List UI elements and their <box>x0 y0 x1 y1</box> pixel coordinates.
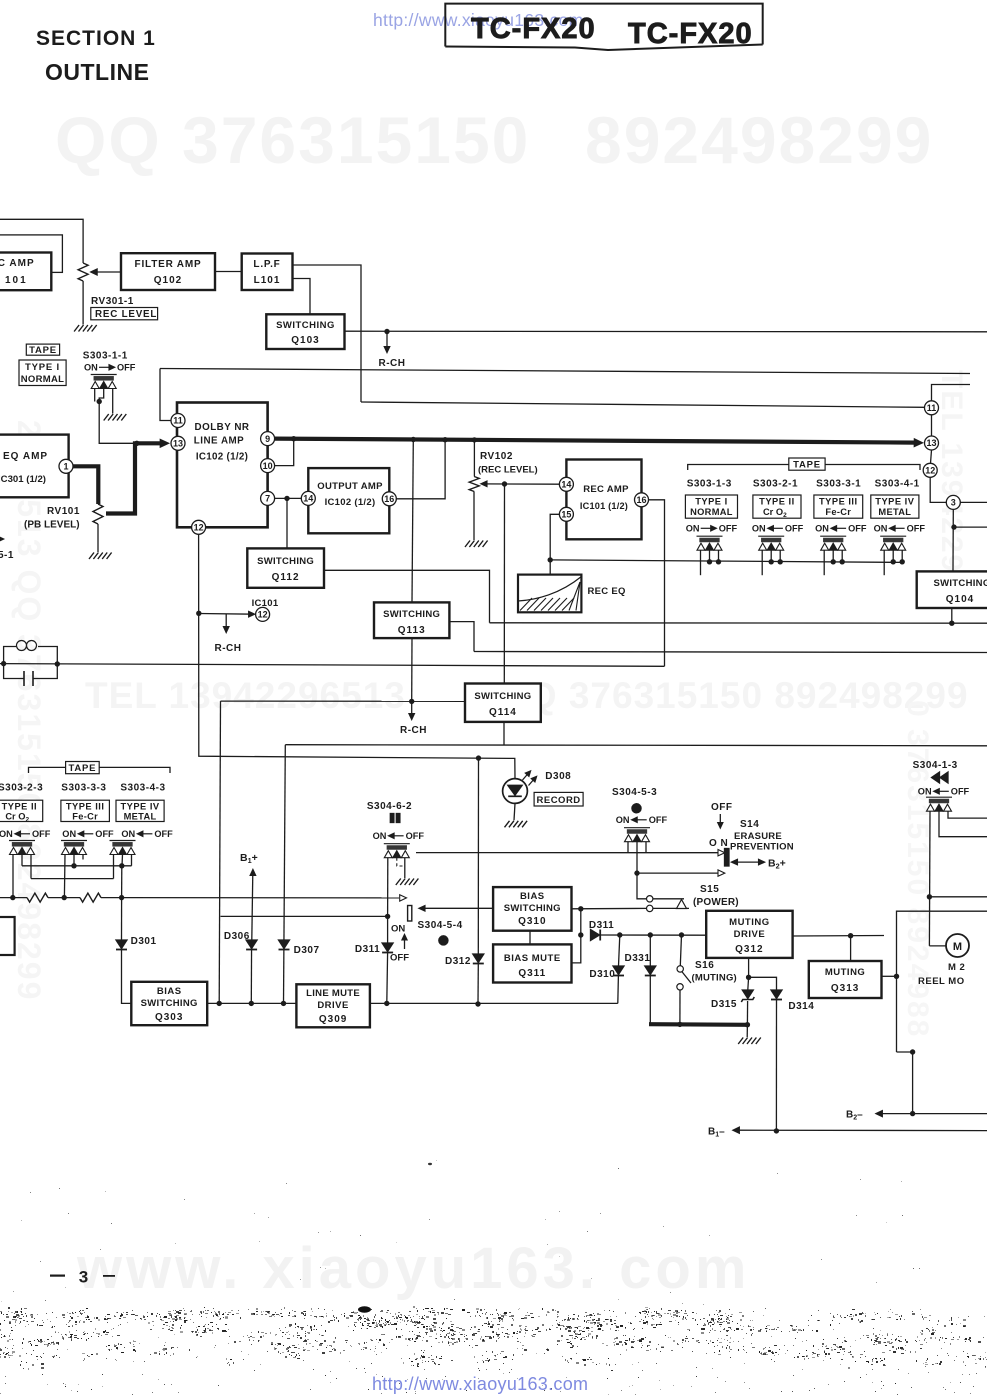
svg-text:D311: D311 <box>589 920 614 931</box>
svg-text:R-CH: R-CH <box>379 358 406 369</box>
svg-text:TYPE II: TYPE II <box>2 802 38 812</box>
diode D301 <box>121 898 123 940</box>
wire pin11 elbow top <box>932 385 971 401</box>
wire LPF to switching Q103 <box>293 279 311 315</box>
muting drive Q312 <box>706 911 792 958</box>
wire Q114 input line <box>221 700 466 702</box>
node R-CH IC101 takeoff <box>196 611 201 616</box>
wire record line from dolby pin12 <box>199 534 515 778</box>
wire pin7 to output amp <box>275 497 302 499</box>
svg-text:PREVENTION: PREVENTION <box>730 842 794 853</box>
svg-text:SWITCHING: SWITCHING <box>257 556 314 567</box>
pin 7 dolby <box>261 491 275 505</box>
dolby NR line amp IC102 <box>177 403 268 528</box>
node Q104 bottom <box>949 621 954 626</box>
wire bold main bus pin9 to right pin13 <box>275 439 916 443</box>
svg-text:10: 10 <box>263 461 273 471</box>
ground muting rail <box>738 1038 761 1045</box>
block behind mic amp <box>0 235 62 273</box>
wire Q114 feed down <box>219 701 220 1003</box>
filter amp Q102 <box>121 253 215 290</box>
wire S304-1-3 mid pin <box>939 811 987 837</box>
wire to Q313 <box>850 936 852 961</box>
LC trap left <box>4 647 16 664</box>
node S303-1-1 <box>97 399 102 404</box>
wire LPF line into pin11 <box>361 402 925 407</box>
svg-text:D308: D308 <box>545 771 571 782</box>
svg-text:IC102 (1/2): IC102 (1/2) <box>196 452 248 463</box>
node S303-1-3 a <box>707 559 712 564</box>
svg-text:TAPE: TAPE <box>68 763 96 774</box>
switching Q103 <box>266 314 344 349</box>
svg-text:L.P.F: L.P.F <box>253 259 280 270</box>
svg-text:NORMAL: NORMAL <box>690 507 733 517</box>
svg-text:REC EQ: REC EQ <box>588 586 626 597</box>
wire ground stem <box>746 1025 748 1037</box>
node rec eq <box>548 557 553 562</box>
wire motor line right <box>929 896 987 898</box>
svg-text:Q310: Q310 <box>518 916 546 927</box>
svg-text:TYPE I: TYPE I <box>25 362 60 373</box>
svg-text:IC101 (1/2): IC101 (1/2) <box>580 501 628 511</box>
wire S304-6-2 right pin to ground <box>404 858 406 878</box>
svg-text:9: 9 <box>265 434 270 444</box>
node B1 <box>774 1128 779 1133</box>
svg-text:TYPE II: TYPE II <box>759 497 795 507</box>
node drop D310 <box>617 932 622 937</box>
svg-text:S303-4-1: S303-4-1 <box>875 479 920 490</box>
svg-text:OFF: OFF <box>649 815 668 825</box>
svg-text:RECORD: RECORD <box>537 795 581 806</box>
node bus 1 <box>291 436 296 441</box>
wire Q114 output <box>503 722 505 745</box>
wire RV102 to ground <box>473 492 475 541</box>
wire bias bus with resistors <box>0 897 27 899</box>
svg-text:Fe-Cr: Fe-Cr <box>825 507 851 517</box>
line mute drive Q309 <box>296 984 370 1027</box>
bias switching Q303 <box>131 982 207 1025</box>
ground RV101 <box>89 553 112 560</box>
ground RV102 <box>465 541 488 548</box>
svg-text:OFF: OFF <box>32 829 51 839</box>
wire bold RV101 wiper to dolby pin13 <box>106 443 163 513</box>
wire line to Q104 bottom <box>490 622 987 624</box>
partial block left edge <box>0 917 15 955</box>
svg-text:S303-4-3: S303-4-3 <box>120 783 165 794</box>
svg-text:TEL 13942296513: TEL 13942296513 <box>85 675 406 716</box>
svg-text:QQ 376315150: QQ 376315150 <box>55 103 530 177</box>
wire B1+ arrow <box>252 873 253 940</box>
svg-text:14: 14 <box>561 480 571 490</box>
node link b <box>119 863 124 868</box>
wire Q313 output <box>882 975 897 977</box>
svg-text:(MUTING): (MUTING) <box>692 973 737 984</box>
svg-text:Q113: Q113 <box>398 625 426 636</box>
ground RV301 <box>74 325 97 332</box>
motor M2 <box>946 934 969 957</box>
pin 14 output amp <box>301 491 315 505</box>
svg-text:OFF: OFF <box>907 524 926 534</box>
tape bracket right <box>688 465 789 471</box>
resistor RV101 <box>93 504 103 524</box>
wire pin3 right <box>960 501 987 503</box>
svg-text:101: 101 <box>5 275 28 286</box>
svg-text:OFF: OFF <box>785 524 804 534</box>
node out 4 <box>384 1001 389 1006</box>
svg-text:13: 13 <box>173 439 183 449</box>
svg-text:L101: L101 <box>254 275 281 286</box>
wire bus to RV102 <box>473 440 475 477</box>
svg-text:12: 12 <box>194 523 204 533</box>
pin 16 rec amp <box>635 493 649 507</box>
svg-text:Q103: Q103 <box>291 335 319 346</box>
bias mute Q311 <box>493 944 571 982</box>
node rec line <box>502 481 507 486</box>
svg-text:ON: ON <box>84 363 98 373</box>
output amp IC102 <box>308 468 389 533</box>
svg-text:SECTION 1: SECTION 1 <box>36 27 156 50</box>
svg-text:TYPE IV: TYPE IV <box>875 497 914 507</box>
svg-text:14: 14 <box>303 494 313 504</box>
muting Q313 <box>809 961 882 998</box>
svg-text:(REC LEVEL): (REC LEVEL) <box>478 465 538 476</box>
wire S304-6-2 mid pin dashed <box>397 858 405 866</box>
svg-text:D301: D301 <box>131 936 157 947</box>
wire S304-1-3 left pin <box>928 811 931 946</box>
svg-text:2296513 QQ 376315150 892498299: 2296513 QQ 376315150 892498299 <box>11 420 47 1001</box>
wire S303-2-3 pins <box>12 855 14 898</box>
svg-text:D312: D312 <box>445 956 471 967</box>
svg-text:Q309: Q309 <box>319 1014 347 1025</box>
wire S303-4-1 pins <box>883 550 885 575</box>
wire Q113 output <box>449 622 474 652</box>
wire to IC101 pin12 <box>199 613 255 616</box>
svg-text:S304-1-3: S304-1-3 <box>913 760 958 771</box>
node Q310 out <box>578 906 583 911</box>
wire S303-1-1 pins <box>90 388 92 390</box>
svg-text:S303-2-3: S303-2-3 <box>0 783 43 794</box>
wire Q310 output <box>572 907 647 909</box>
node D315 ground rail <box>745 1022 750 1027</box>
svg-text:15: 15 <box>561 510 571 520</box>
ground LED <box>505 821 528 828</box>
svg-text:RV301-1: RV301-1 <box>91 296 134 307</box>
svg-text:ON: ON <box>918 787 932 797</box>
svg-text:ON: ON <box>815 524 829 534</box>
wire D307 branch vertical <box>284 745 286 1004</box>
svg-text:http://www.xiaoyu163.com: http://www.xiaoyu163.com <box>372 1374 588 1394</box>
svg-text:TYPE III: TYPE III <box>66 802 105 812</box>
svg-text:Q102: Q102 <box>154 275 182 286</box>
wire tape bus L1 <box>550 560 904 563</box>
svg-text:S15: S15 <box>700 884 719 895</box>
wire R-CH arrow mid <box>225 614 227 629</box>
svg-text:OFF: OFF <box>848 524 867 534</box>
node bus 4 <box>472 437 477 442</box>
svg-text:TYPE I: TYPE I <box>695 497 727 507</box>
svg-text:12: 12 <box>258 610 268 620</box>
svg-text:Q114: Q114 <box>489 707 517 718</box>
svg-text:Fe-Cr: Fe-Cr <box>72 812 98 822</box>
svg-text:ON: ON <box>752 524 766 534</box>
wire LPF output to line <box>293 265 362 402</box>
svg-text:Q311: Q311 <box>518 968 546 979</box>
node S303-1-3 b <box>716 559 721 564</box>
node elbow <box>910 1049 915 1054</box>
svg-text:TAPE: TAPE <box>793 460 821 471</box>
svg-text:D314: D314 <box>788 1001 814 1012</box>
svg-text:16: 16 <box>384 494 394 504</box>
svg-text:S304-5-3: S304-5-3 <box>612 787 657 798</box>
wire pin15 to rec eq node <box>550 514 559 560</box>
pin 11 right <box>925 401 939 415</box>
svg-text:TC-FX20: TC-FX20 <box>471 13 596 45</box>
bias switching Q310 <box>493 887 571 931</box>
wire pin13 to pin12 <box>931 450 932 463</box>
svg-text:METAL: METAL <box>124 812 157 822</box>
svg-text:Q104: Q104 <box>946 594 974 605</box>
wire S303-1-1 to dolby input <box>99 402 134 444</box>
svg-text:OFF: OFF <box>406 831 425 841</box>
wire S304-6-2 left pin <box>387 858 389 917</box>
node out 1 <box>217 1001 222 1006</box>
svg-text:SWITCHING: SWITCHING <box>504 903 561 914</box>
pin 11 dolby <box>171 414 185 428</box>
svg-text:REC LEVEL: REC LEVEL <box>95 309 157 320</box>
svg-text:TC-FX20: TC-FX20 <box>628 18 753 50</box>
node bias bus 2 <box>61 895 66 900</box>
svg-text:Q312: Q312 <box>735 944 763 955</box>
svg-text:OFF: OFF <box>117 363 136 373</box>
svg-text:OFF: OFF <box>154 829 173 839</box>
node bias bus 1 <box>10 895 15 900</box>
svg-text:TEL 13942296: TEL 13942296 <box>935 370 968 592</box>
svg-text:R-CH: R-CH <box>400 725 427 736</box>
svg-text:ON: ON <box>686 524 700 534</box>
wire link line 878 <box>31 878 114 880</box>
scan noise <box>0 1160 987 1395</box>
eq amp IC301 <box>0 435 69 498</box>
pin 3 right <box>946 495 960 509</box>
svg-text:D307: D307 <box>294 945 320 956</box>
LED arrows <box>523 773 530 781</box>
wire S303-3-3 pins <box>63 855 66 898</box>
wire Q313 node up elbow <box>897 911 987 1052</box>
svg-text:DRIVE: DRIVE <box>734 929 766 940</box>
pin 12 IC101 <box>256 607 270 621</box>
pin 13 right <box>925 436 939 450</box>
wire S303-1-3 pins <box>700 550 702 575</box>
pin 10 dolby <box>261 459 275 473</box>
svg-text:S303-2-1: S303-2-1 <box>753 479 798 490</box>
wire erase line B <box>637 872 718 874</box>
svg-text:1: 1 <box>63 462 68 472</box>
svg-text:BIAS: BIAS <box>157 986 182 997</box>
wire bold eq amp to RV101 <box>73 466 98 504</box>
wire S303-4-3 pins <box>113 855 115 879</box>
svg-text:D310: D310 <box>589 969 615 980</box>
svg-text:BIAS MUTE: BIAS MUTE <box>504 953 561 964</box>
svg-text:M: M <box>953 941 962 953</box>
node link a <box>71 863 76 868</box>
rec amp IC101 <box>566 460 641 540</box>
node 916 <box>385 914 390 919</box>
svg-text:OUTPUT AMP: OUTPUT AMP <box>317 481 383 492</box>
pin 12 right <box>923 463 937 477</box>
node drop D331 <box>648 932 653 937</box>
node Q103 R-CH <box>384 329 389 334</box>
svg-text:S16: S16 <box>695 960 714 971</box>
svg-text:ON: ON <box>874 524 888 534</box>
svg-text:SWITCHING: SWITCHING <box>474 691 531 702</box>
switch S15 power <box>647 896 653 902</box>
model name box TC-FX20 <box>445 4 762 47</box>
node S303-2-1 b <box>778 559 783 564</box>
LED D308 <box>503 779 528 804</box>
svg-text:ON: ON <box>373 831 387 841</box>
svg-text:S303-3-3: S303-3-3 <box>61 783 106 794</box>
wire filter amp to LPF <box>215 271 242 273</box>
svg-text:5-1: 5-1 <box>0 550 14 561</box>
pin 12 dolby <box>192 520 206 534</box>
wire L-ch down to Q114 line <box>412 440 413 603</box>
wire node to rec eq block <box>549 560 551 575</box>
wire link line 865 <box>22 865 132 867</box>
pin 15 rec amp <box>559 507 573 521</box>
switching Q112 <box>247 548 324 587</box>
svg-text:METAL: METAL <box>878 507 911 517</box>
wire Q303 Q309 output line <box>207 1002 296 1004</box>
wire dolby pin11 elbow <box>160 369 171 421</box>
wire node down to Q114 <box>503 484 505 684</box>
node pin7 <box>284 496 289 501</box>
svg-text:S304-5-4: S304-5-4 <box>418 920 463 931</box>
ground S304-6-2 <box>396 879 419 886</box>
node Q312 bottom <box>746 975 751 980</box>
svg-text:3: 3 <box>951 498 956 508</box>
node S303-3-1 b <box>840 559 845 564</box>
wire node to switching Q112 <box>286 498 288 548</box>
label box TYPE I NORMAL <box>19 360 66 386</box>
node S16 ground rail <box>677 1022 682 1027</box>
switch S304-5-4 <box>408 906 412 922</box>
wire bias feed vertical <box>121 866 123 898</box>
node Q312 out <box>848 933 853 938</box>
svg-text:7: 7 <box>265 494 270 504</box>
label box REC LEVEL <box>91 308 158 320</box>
wire Q311 elbow <box>572 909 581 963</box>
node bias bus 3 <box>119 895 124 900</box>
switch S16 muting <box>680 935 681 966</box>
node record LED branch <box>476 755 481 760</box>
wire S304-5-3 to S15 <box>637 873 647 899</box>
label box TAPE left-top <box>26 344 59 355</box>
node Q313 out <box>894 974 899 979</box>
wire RV101 to ground <box>97 524 99 552</box>
wire pin16 to bus <box>396 440 445 499</box>
capacitor LC trap <box>4 664 24 679</box>
wire pin3 down to Q104 <box>952 509 954 571</box>
wire Q312 bottom <box>748 958 750 977</box>
switching Q114 <box>465 684 541 722</box>
wire R-CH arrow low <box>411 701 413 716</box>
wire record branch vertical <box>477 758 479 954</box>
svg-text:IC102 (1/2): IC102 (1/2) <box>325 497 376 508</box>
wire Q104 bottom <box>951 608 953 623</box>
wire line 916 <box>221 915 388 917</box>
resistor RV102 <box>469 477 479 492</box>
svg-text:ON: ON <box>0 829 13 839</box>
svg-text:SWITCHING: SWITCHING <box>276 320 335 331</box>
svg-text:(POWER): (POWER) <box>693 897 739 908</box>
svg-text:TYPE IV: TYPE IV <box>120 802 159 812</box>
svg-text:Q112: Q112 <box>272 572 300 583</box>
wire pin11 to pin13 <box>931 415 933 436</box>
wire D301 to Q303 <box>122 950 132 1004</box>
svg-text:(PB LEVEL): (PB LEVEL) <box>24 520 80 531</box>
svg-text:S303-1-3: S303-1-3 <box>687 479 732 490</box>
svg-text:SWITCHING: SWITCHING <box>383 609 440 620</box>
wire line B to right edge <box>474 652 987 653</box>
svg-text:11: 11 <box>173 416 183 426</box>
node dolby input <box>134 441 139 446</box>
svg-text:NORMAL: NORMAL <box>21 374 65 385</box>
node S303-3-1 a <box>831 559 836 564</box>
svg-text:0 376315150 8924988: 0 376315150 8924988 <box>901 700 934 1038</box>
svg-text:ON: ON <box>121 829 135 839</box>
node out 2 <box>249 1001 254 1006</box>
svg-text:11: 11 <box>927 403 937 413</box>
wire S303-2-1 pins <box>761 550 763 575</box>
pin 1 eq amp <box>59 459 73 473</box>
svg-text:ON: ON <box>391 924 405 935</box>
svg-text:IC AMP: IC AMP <box>0 258 35 269</box>
node LC right <box>55 661 60 666</box>
line L-ch long to right <box>160 369 970 374</box>
wire S303-1-1 right pin to ground <box>112 389 114 414</box>
svg-text:ON: ON <box>616 815 630 825</box>
svg-text:OFF: OFF <box>719 524 738 534</box>
svg-text:MUTING: MUTING <box>825 967 865 978</box>
wire Q103 output R-CH line <box>345 330 987 333</box>
mic amp IC101 <box>0 253 51 291</box>
svg-text:OFF: OFF <box>951 787 970 797</box>
node LC left <box>1 661 6 666</box>
svg-text:TAPE: TAPE <box>29 345 57 356</box>
svg-text:16: 16 <box>636 495 646 505</box>
svg-text:D331: D331 <box>625 953 651 964</box>
node R-CH Q114 <box>409 699 414 704</box>
svg-text:RV101: RV101 <box>47 506 80 517</box>
pin 9 dolby <box>261 432 275 446</box>
switching Q113 <box>374 602 449 638</box>
node S303-4-1 b <box>900 559 905 564</box>
wire top input <box>0 219 83 263</box>
node S303-4-1 a <box>891 559 896 564</box>
wire S304-1-3 right pin <box>948 811 987 818</box>
ground S303-1-1 <box>104 414 127 421</box>
node out 3 <box>281 1001 286 1006</box>
node bus 2 <box>411 437 416 442</box>
svg-text:ON: ON <box>62 829 76 839</box>
pin 16 output amp <box>382 492 396 506</box>
node S303-2-1 a <box>769 559 774 564</box>
low pass filter L101 <box>242 254 293 291</box>
svg-text:13: 13 <box>926 438 936 448</box>
svg-text:TYPE III: TYPE III <box>819 497 858 507</box>
wire section top line <box>285 745 987 746</box>
arrow stub left edge <box>0 537 4 542</box>
